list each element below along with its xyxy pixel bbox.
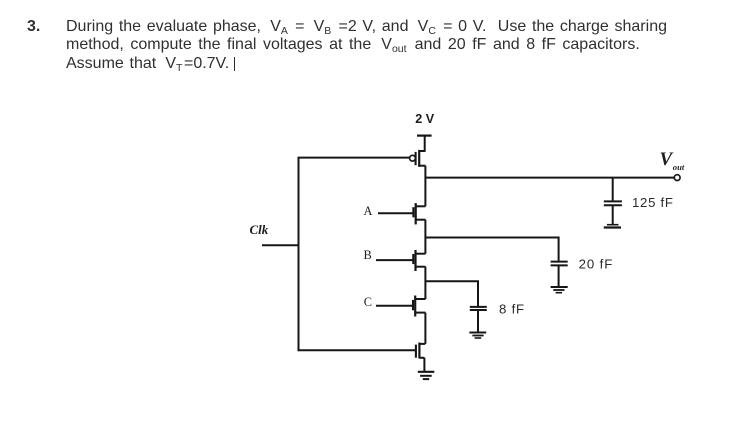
pmos precharge transistor (410, 150, 426, 167)
nmos B (376, 250, 426, 271)
evaluate nmos gate wire (299, 349, 416, 351)
node B-C wire to 8fF (425, 281, 478, 306)
label C (364, 295, 372, 309)
supply label 2 V (415, 112, 435, 126)
problem statement text (66, 18, 667, 73)
clk input stub wire (262, 244, 299, 246)
svg-text:2 V: 2 V (415, 112, 435, 126)
label A (364, 204, 373, 218)
label Vout (660, 149, 685, 172)
power supply bar 2V (417, 135, 432, 137)
clk rail vertical wire (298, 157, 300, 352)
wire nmos B to nmos C (424, 267, 426, 299)
svg-text:C: C (364, 295, 372, 309)
vout terminal circle (674, 175, 680, 181)
node A-B wire to 20fF (425, 238, 558, 261)
problem number 3. (27, 18, 40, 36)
nmos C (376, 296, 426, 317)
svg-text:A: A (364, 204, 373, 218)
wire supply to pmos source (424, 136, 426, 152)
svg-text:125 fF: 125 fF (632, 195, 674, 210)
ground under 20fF (551, 287, 568, 293)
nmos A (378, 203, 426, 224)
capacitor 20fF (551, 262, 568, 287)
label Clk (250, 222, 269, 237)
svg-text:20 fF: 20 fF (579, 257, 614, 272)
label 20 fF (579, 257, 614, 272)
wire nmos A to nmos B (424, 220, 426, 254)
svg-text:Clk: Clk (250, 222, 269, 237)
ground under evaluate nmos (418, 372, 435, 379)
ground under 125fF (604, 225, 621, 228)
pmos gate wire from clk rail (299, 157, 410, 159)
ground under 8fF (469, 333, 486, 339)
wire pmos drain to nmos A (424, 166, 426, 207)
svg-text:8 fF: 8 fF (499, 301, 525, 316)
label B (364, 248, 372, 262)
nmos evaluate transistor (416, 343, 425, 372)
label 8 fF (499, 301, 525, 316)
capacitor 8fF (470, 307, 487, 332)
wire nmos C to evaluate nmos (424, 313, 426, 344)
capacitor 125fF top lead (612, 178, 614, 201)
svg-text:out: out (673, 162, 685, 172)
label 125 fF (632, 195, 674, 210)
vout node wire (425, 177, 674, 179)
capacitor 125fF (604, 201, 622, 224)
svg-text:V: V (660, 149, 674, 170)
svg-text:B: B (364, 248, 372, 262)
